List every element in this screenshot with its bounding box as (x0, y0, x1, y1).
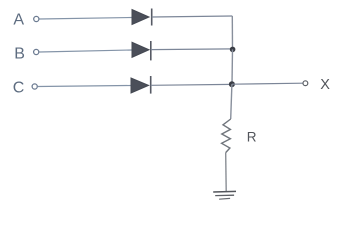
svg-text:X: X (320, 77, 330, 93)
wire (232, 83, 303, 84)
wire (40, 18, 133, 20)
wire (39, 50, 132, 52)
node C (13, 80, 38, 97)
wire (231, 16, 233, 49)
wire (151, 83, 232, 86)
node A (13, 12, 39, 29)
wire (225, 153, 228, 192)
node B (14, 46, 39, 63)
node X (303, 77, 330, 93)
wire (152, 16, 233, 17)
diode D3 (131, 76, 151, 94)
wire (231, 49, 234, 84)
wire (231, 84, 232, 119)
svg-text:C: C (13, 80, 25, 97)
resistor R (222, 119, 257, 153)
junction (230, 47, 236, 53)
junction (229, 81, 235, 87)
svg-text:R: R (247, 129, 257, 144)
wire (151, 48, 233, 51)
ground (213, 191, 236, 199)
svg-text:B: B (14, 46, 25, 63)
diode D1 (132, 9, 152, 26)
wire (38, 86, 131, 87)
svg-text:A: A (13, 12, 24, 29)
diode D2 (132, 41, 151, 60)
